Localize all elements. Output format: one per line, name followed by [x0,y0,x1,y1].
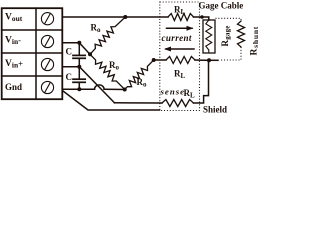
wire shield diagonal from terminal block [63,91,160,110]
svg-text:C: C [66,47,73,57]
current arrow right (top lead) [167,26,194,31]
terminal block row divider 1 [2,29,63,31]
capacitor C2 bottom lead [78,82,80,89]
svg-text:Shield: Shield [203,104,227,114]
svg-text:Gnd: Gnd [5,82,22,92]
junction node B (Ro1/Ro2) [88,52,92,56]
svg-text:Vout: Vout [5,13,23,24]
capacitor C2 plates [73,79,85,82]
wire sense to gage bottom [194,60,209,103]
svg-text:Gage Cable: Gage Cable [199,1,244,11]
svg-text:Vin-: Vin- [5,35,21,46]
terminal block row divider 3 [2,75,63,77]
wire Gnd lead [63,88,95,90]
resistor Rshunt zigzag [238,21,245,47]
wire Vin- lead [63,42,79,44]
junction node A (Vin- / C1) [77,41,81,45]
wire Vout lead (top) [63,16,168,18]
capacitor C1 top lead [78,43,80,55]
svg-text:sense: sense [160,87,186,97]
junction node gage bottom [207,58,211,62]
capacitor C2 top lead [78,67,80,79]
gage cable dotted box [160,2,200,111]
resistor RL3 (sense lead) [162,100,194,107]
wire Vin- node to bridge node B [79,43,90,55]
resistor Ro1 (bridge arm Vout to Vin-) [90,17,125,54]
resistor RL1 (top lead) [168,14,194,21]
svg-text:Vin+: Vin+ [5,59,23,70]
junction node S (Ro3 / RL2) [152,58,156,62]
capacitor C1 plates [73,55,85,58]
junction node T (Vout / Ro1) [123,15,127,19]
capacitor C1 bottom lead [78,58,80,66]
wire sense diagonal from Vin+ node [79,67,114,103]
wire node S to RL2 [154,59,166,61]
junction node C (Gnd / Ro2 / Ro3) [123,88,127,92]
svg-text:current: current [162,33,192,43]
screw terminal Vin- [41,35,53,47]
terminal block column divider [35,8,37,99]
svg-text:C: C [66,72,73,82]
shunt dotted connection top [216,18,242,21]
junction node D (Vin+ / C2 / sense) [77,65,81,69]
svg-text:Rshunt: Rshunt [250,26,259,56]
screw terminal Vout [41,13,53,25]
terminal block outline [2,8,63,99]
wire gage bottom stub to shunt tap [209,59,219,61]
resistor RL2 (current return lead) [166,57,195,64]
wire top lead after RL1 to gage [194,17,209,20]
wire Gnd to bridge node C [104,88,125,90]
junction node gage top [200,15,204,19]
shunt dotted connection bottom [220,47,241,60]
wire hop over sense diagonal [95,85,105,89]
wire Vin+ lead [63,66,79,68]
screw terminal Vin+ [41,58,53,70]
junction node E (Gnd / C2) [77,87,81,91]
resistor Ro3 (bridge arm Gnd to sense node S) [125,60,154,90]
terminal block row divider 2 [2,52,63,54]
resistor Ro2 (bridge arm Vin- to Gnd) [90,54,125,89]
current arrow left (return lead) [164,47,194,52]
wire sense horizontal [115,102,163,104]
screw terminal Gnd [41,81,53,93]
wire RL2 to gage bottom node [195,59,209,61]
strain gage body box [203,20,215,53]
strain gage internal zigzag [206,20,212,53]
